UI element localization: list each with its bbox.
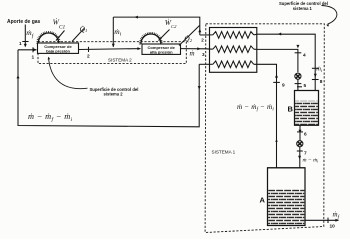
svg-text:8: 8 <box>320 79 323 85</box>
svg-text:6: 6 <box>304 132 307 138</box>
svg-text:A: A <box>260 196 266 205</box>
svg-text:4: 4 <box>303 53 306 59</box>
svg-text:sistema 1: sistema 1 <box>293 6 313 11</box>
svg-text:Aporte de gas: Aporte de gas <box>7 19 41 25</box>
svg-text:B: B <box>288 105 294 114</box>
svg-text:2: 2 <box>87 54 90 60</box>
svg-text:alta presión: alta presión <box>150 50 173 55</box>
svg-text:sistema 2: sistema 2 <box>104 91 124 96</box>
svg-text:5: 5 <box>304 83 307 89</box>
svg-text:10: 10 <box>330 224 336 230</box>
svg-text:9: 9 <box>282 83 285 89</box>
svg-text:SISTEMA 1: SISTEMA 1 <box>212 150 236 155</box>
svg-text:3: 3 <box>202 52 205 57</box>
svg-text:1: 1 <box>19 41 22 47</box>
svg-text:ṁ − ṁi: ṁ − ṁi <box>303 157 320 163</box>
svg-text:2: 2 <box>201 37 204 42</box>
svg-text:1: 1 <box>32 55 35 61</box>
svg-text:7: 7 <box>304 151 307 157</box>
svg-text:baja presión: baja presión <box>46 49 70 54</box>
svg-text:ṁ: ṁ <box>190 49 195 57</box>
svg-text:SISTEMA 2: SISTEMA 2 <box>108 58 132 63</box>
